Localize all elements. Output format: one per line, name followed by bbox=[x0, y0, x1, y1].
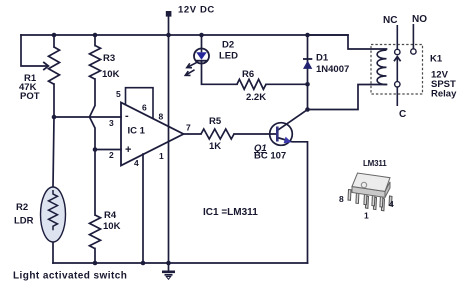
svg-text:1K: 1K bbox=[209, 141, 221, 152]
svg-text:4: 4 bbox=[389, 199, 394, 209]
svg-text:5: 5 bbox=[116, 89, 121, 99]
svg-text:NC: NC bbox=[383, 15, 397, 26]
wire relay coil return bbox=[308, 85, 387, 110]
relay NO contact bbox=[411, 49, 416, 54]
svg-text:NO: NO bbox=[412, 14, 427, 25]
LDR R2 body bbox=[41, 187, 66, 242]
package body side bbox=[352, 187, 385, 198]
svg-text:8: 8 bbox=[159, 112, 164, 122]
svg-text:8: 8 bbox=[339, 194, 344, 204]
svg-text:K1: K1 bbox=[430, 54, 443, 65]
wire emitter run to ground bbox=[277, 138, 307, 264]
wire pin7 to R5 bbox=[184, 133, 202, 135]
svg-text:R4: R4 bbox=[104, 210, 117, 221]
svg-text:R2: R2 bbox=[16, 202, 28, 213]
wire left pot feed bbox=[21, 35, 46, 66]
svg-text:+: + bbox=[125, 144, 131, 156]
resistor R3 bbox=[90, 46, 101, 80]
resistor R1 pot zigzag bbox=[49, 47, 60, 84]
node rail-LED bbox=[199, 33, 204, 38]
svg-text:LM311: LM311 bbox=[363, 159, 387, 168]
svg-text:Relay: Relay bbox=[431, 89, 457, 100]
wire LED top lead bbox=[201, 35, 203, 49]
svg-text:D2: D2 bbox=[222, 40, 234, 51]
node 12V DC terminal bbox=[166, 11, 172, 17]
wire bottom rail bbox=[53, 262, 308, 264]
resistor R4 bbox=[90, 215, 101, 249]
package notch bbox=[361, 182, 366, 187]
node pot-wiper junction bbox=[52, 115, 57, 120]
node collector-relay junction bbox=[305, 107, 310, 112]
svg-text:6: 6 bbox=[142, 103, 147, 113]
diode D1 bbox=[303, 58, 312, 60]
svg-text:1N4007: 1N4007 bbox=[316, 64, 349, 75]
svg-text:C: C bbox=[399, 109, 406, 120]
svg-text:D1: D1 bbox=[316, 53, 329, 64]
wire 12V stem bbox=[168, 16, 170, 35]
relay armature arrow bbox=[396, 58, 398, 82]
wire LED bottom to R6 bbox=[202, 62, 238, 84]
wire pot branch vertical bbox=[53, 35, 55, 117]
LDR R2 zigzag bbox=[49, 190, 58, 230]
svg-text:2.2K: 2.2K bbox=[246, 92, 266, 103]
svg-text:2: 2 bbox=[109, 150, 114, 160]
wire pin3 bbox=[54, 116, 121, 118]
svg-text:Light activated switch: Light activated switch bbox=[13, 271, 127, 282]
svg-text:12V DC: 12V DC bbox=[178, 5, 215, 16]
resistor R5 bbox=[201, 129, 234, 139]
wire R4 leads bbox=[94, 150, 96, 264]
relay common contact bbox=[395, 82, 400, 87]
node gnd rail pin4 bbox=[141, 261, 146, 266]
transistor Q1 base bar bbox=[276, 127, 279, 142]
svg-text:R5: R5 bbox=[209, 116, 222, 127]
resistor R1 wiper arrow head bbox=[43, 62, 48, 70]
wire supply vertical through IC bbox=[168, 35, 170, 263]
IC package LM311 drawing bbox=[339, 159, 394, 221]
svg-text:3: 3 bbox=[109, 118, 114, 128]
svg-text:7: 7 bbox=[186, 123, 191, 133]
svg-text:10K: 10K bbox=[103, 221, 121, 232]
node gnd rail ground bbox=[166, 261, 171, 266]
svg-text:LED: LED bbox=[219, 51, 238, 62]
node R6-D1 junction bbox=[305, 82, 310, 87]
wire R3 branch bbox=[90, 35, 96, 150]
relay K1 coil bbox=[377, 50, 386, 84]
node rail-pot bbox=[52, 33, 57, 38]
LED D2 emission arrows bbox=[185, 62, 197, 75]
svg-text:IC1 =LM311: IC1 =LM311 bbox=[203, 207, 258, 218]
svg-text:10K: 10K bbox=[102, 69, 120, 80]
wire pin4 bbox=[142, 154, 144, 263]
node rail-R3 bbox=[93, 33, 98, 38]
node rail-D1 bbox=[305, 33, 310, 38]
svg-text:BC 107: BC 107 bbox=[254, 151, 286, 162]
package pins front row bbox=[348, 190, 383, 208]
svg-text:LDR: LDR bbox=[14, 216, 34, 227]
wire R6 to D1 line bbox=[266, 83, 308, 85]
relay NC contact bbox=[395, 49, 400, 54]
wire D1 vertical bbox=[307, 35, 309, 110]
node R3-pin2 junction bbox=[93, 147, 98, 152]
svg-text:POT: POT bbox=[20, 91, 40, 102]
svg-text:1: 1 bbox=[159, 151, 164, 161]
svg-text:R3: R3 bbox=[103, 53, 115, 64]
transistor Q1 emitter arrow bbox=[284, 137, 292, 144]
wire top rail bbox=[21, 34, 348, 36]
ground bbox=[162, 263, 175, 279]
node rail-supply bbox=[166, 33, 171, 38]
op-amp pin5-6 jumper bbox=[126, 88, 154, 119]
package body top bbox=[352, 173, 390, 191]
wire collector bbox=[278, 110, 308, 131]
svg-text:IC 1: IC 1 bbox=[128, 126, 146, 137]
resistor R6 bbox=[237, 79, 266, 89]
svg-text:4: 4 bbox=[134, 158, 139, 168]
node gnd rail R4 bbox=[93, 261, 98, 266]
relay K1 box bbox=[371, 45, 423, 95]
wire R5 to base bbox=[234, 133, 277, 135]
wire rail to relay coil bbox=[308, 35, 387, 49]
svg-text:1: 1 bbox=[364, 211, 369, 221]
op-amp U1 IC1 triangle bbox=[121, 103, 184, 166]
wire LDR leads bbox=[53, 117, 54, 263]
transistor Q1 bbox=[270, 123, 293, 146]
LED D2 bbox=[194, 49, 209, 64]
wire pin2 bbox=[95, 149, 121, 151]
svg-text:R6: R6 bbox=[242, 69, 254, 80]
package pins back row bbox=[365, 196, 392, 211]
svg-text:-: - bbox=[125, 110, 129, 122]
